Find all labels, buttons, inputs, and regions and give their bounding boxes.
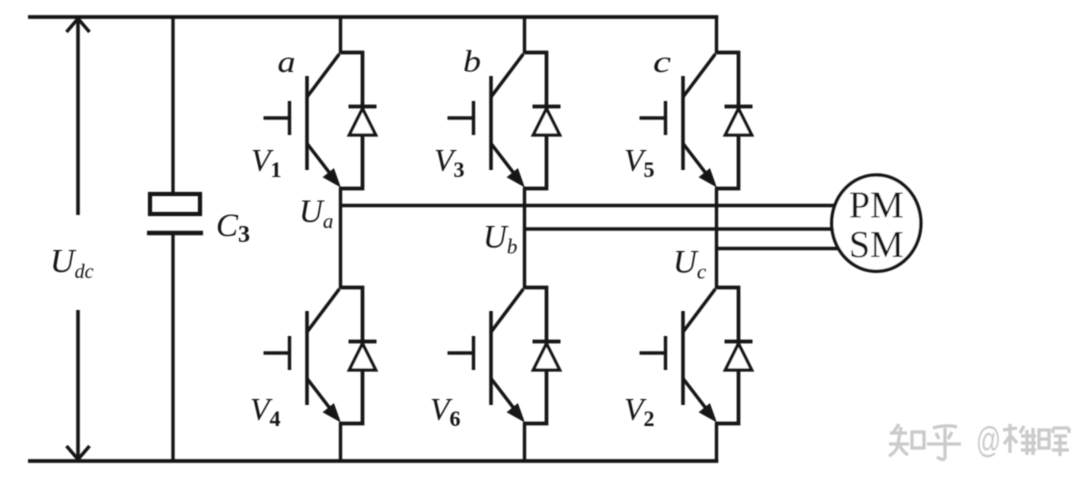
svg-text:a: a	[278, 44, 296, 79]
transistor V2 emitter lead	[683, 379, 710, 414]
transistor V3 body bar	[489, 76, 493, 170]
wire: phase a leg middle (output node)	[339, 187, 342, 289]
transistor V5 emitter arrowhead	[700, 169, 717, 187]
transistor V3 collector lead	[491, 54, 523, 97]
diode D6 cathode bar	[533, 340, 561, 344]
diode D5 cathode bar	[725, 105, 753, 109]
wire: phase c leg bottom stub	[715, 422, 718, 463]
motor PMSM circle	[832, 175, 921, 271]
diode D1 triangle	[349, 109, 375, 135]
diode D3 cathode bar	[533, 105, 561, 109]
diode D1 cathode bar	[349, 105, 377, 109]
wire: capacitor bottom lead	[171, 234, 174, 461]
wire: capacitor top lead	[171, 17, 174, 195]
svg-text:b: b	[463, 44, 481, 79]
svg-text:c: c	[653, 44, 671, 79]
transistor V4 emitter lead	[307, 379, 334, 414]
transistor V6 body bar	[489, 311, 493, 405]
transistor V4 emitter arrowhead	[324, 404, 341, 422]
Udc arrowhead up	[67, 19, 90, 32]
transistor V1 collector lead	[307, 54, 339, 97]
diode D2 cathode bar	[725, 340, 753, 344]
Udc arrowhead down	[67, 446, 90, 459]
Udc dimension arrow upper segment	[76, 19, 80, 215]
capacitor C3 bottom plate	[147, 231, 203, 235]
transistor V6 gate lead	[448, 351, 473, 354]
wire: V3 collector-to-diode jog and diode branch	[525, 53, 547, 189]
transistor V1 body bar	[305, 76, 309, 170]
transistor V6 emitter arrowhead	[508, 404, 525, 422]
wire: phase a leg bottom stub	[339, 422, 342, 463]
wire: V5 collector-to-diode jog and diode branch	[717, 53, 739, 189]
transistor V5 gate lead	[640, 116, 665, 119]
wire: phase b leg middle (output node)	[523, 187, 526, 289]
wire: top DC bus	[28, 15, 718, 19]
svg-text:PM: PM	[849, 185, 904, 227]
transistor V4 gate bar	[288, 336, 291, 370]
transistor V2 emitter arrowhead	[700, 404, 717, 422]
wire: V2 collector-to-diode jog and diode branch	[717, 288, 739, 424]
wire: phase a leg top stub	[339, 16, 342, 55]
wire: phase c output U_c	[717, 247, 841, 251]
svg-text:@: @	[976, 419, 1001, 460]
transistor V4 gate lead	[264, 351, 289, 354]
wire: V4 collector-to-diode jog and diode branch	[341, 288, 363, 424]
transistor V2 gate lead	[640, 351, 665, 354]
transistor V3 emitter lead	[491, 144, 518, 179]
transistor V6 gate bar	[472, 336, 475, 370]
watermark 知乎 @稚晖	[889, 419, 1069, 460]
wire: V1 collector-to-diode jog and diode branch	[341, 53, 363, 189]
wire: phase c leg middle (output node)	[715, 187, 718, 289]
wire: phase b leg top stub	[523, 16, 526, 55]
wire: phase b leg bottom stub	[523, 422, 526, 463]
transistor V3 gate lead	[448, 116, 473, 119]
wire: phase c leg top stub	[715, 16, 718, 55]
wire: V6 collector-to-diode jog and diode branch	[525, 288, 547, 424]
transistor V2 collector lead	[683, 289, 715, 332]
diode D5 triangle	[725, 109, 751, 135]
wire: phase b output U_b	[525, 227, 835, 231]
transistor V1 gate bar	[288, 101, 291, 135]
transistor V1 emitter lead	[307, 144, 334, 179]
diode D2 triangle	[725, 344, 751, 370]
transistor V5 emitter lead	[683, 144, 710, 179]
diode D6 triangle	[533, 344, 559, 370]
transistor V5 body bar	[681, 76, 685, 170]
transistor V6 collector lead	[491, 289, 523, 332]
transistor V3 emitter arrowhead	[508, 169, 525, 187]
Udc dimension arrow lower segment	[76, 310, 80, 459]
transistor V3 gate bar	[472, 101, 475, 135]
wire: bottom DC bus	[28, 459, 718, 463]
transistor V6 emitter lead	[491, 379, 518, 414]
capacitor C3 top plate (rectangle)	[150, 194, 200, 214]
diode D4 cathode bar	[349, 340, 377, 344]
diode D4 triangle	[349, 344, 375, 370]
transistor V1 emitter arrowhead	[324, 169, 341, 187]
transistor V5 gate bar	[664, 101, 667, 135]
wire: phase a output U_a	[341, 204, 839, 208]
transistor V2 gate bar	[664, 336, 667, 370]
transistor V4 collector lead	[307, 289, 339, 332]
svg-text:SM: SM	[849, 224, 904, 266]
transistor V2 body bar	[681, 311, 685, 405]
transistor V1 gate lead	[264, 116, 289, 119]
diode D3 triangle	[533, 109, 559, 135]
transistor V4 body bar	[305, 311, 309, 405]
transistor V5 collector lead	[683, 54, 715, 97]
